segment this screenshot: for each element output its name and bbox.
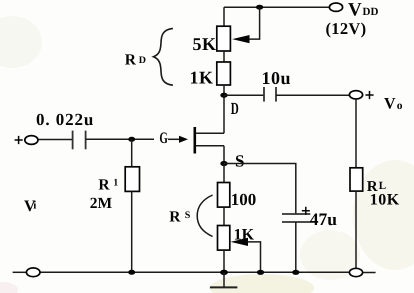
svg-text:R: R: [169, 208, 181, 225]
svg-text:o: o: [397, 100, 403, 112]
label RD: [125, 51, 146, 68]
label 5K: [193, 34, 217, 54]
potentiometer 1K (part of RS): [218, 226, 230, 251]
svg-text:R: R: [125, 51, 137, 68]
svg-text:1K: 1K: [190, 68, 214, 88]
label Vo: [384, 96, 403, 113]
node junction dot at R1 top: [128, 137, 135, 142]
terminal bottom-right: [349, 268, 362, 276]
svg-text:10K: 10K: [370, 192, 400, 209]
svg-text:R: R: [98, 176, 110, 193]
label 10u: [262, 68, 292, 88]
svg-text:1: 1: [113, 177, 118, 188]
terminal input Vi: [25, 136, 38, 145]
svg-text:5K: 5K: [193, 34, 217, 54]
node G label: [159, 130, 168, 147]
wire S down to 100: [223, 164, 225, 183]
wire 0.022u to gate: [86, 136, 188, 143]
potentiometer 5K (part of RD): [217, 26, 231, 51]
node junction dot R1 at rail: [128, 270, 135, 275]
wire junction down to R1: [131, 139, 133, 167]
label VDD: [348, 0, 378, 21]
svg-text:D: D: [139, 55, 146, 66]
terminal bottom-left: [26, 268, 40, 277]
minus stub bottom-right: [363, 272, 376, 274]
label RL: [367, 179, 386, 195]
resistor 100 (part of RS): [218, 183, 230, 208]
svg-text:D: D: [231, 99, 239, 118]
minus stub bottom-left: [13, 271, 27, 273]
node junction dot wiper at rail: [257, 270, 264, 275]
wire RL bottom to output ground terminal: [355, 191, 357, 268]
wire top rail from RD top to VDD terminal: [224, 6, 330, 8]
resistor 1K (part of RD): [217, 62, 231, 85]
svg-text:10u: 10u: [262, 68, 292, 88]
wire S to 47u branch: [224, 164, 296, 214]
wire between 5K and 1K: [223, 51, 225, 62]
node D dot: [220, 93, 227, 98]
plus mark at Vo: [366, 91, 374, 99]
wire 1K pot bottom to rail: [223, 250, 225, 272]
label RS: [169, 208, 191, 225]
wire wiper of 1K pot: [231, 238, 261, 272]
label 47u: [310, 209, 338, 229]
label 1K of RS: [234, 226, 255, 243]
svg-text:0. 022u: 0. 022u: [36, 110, 94, 129]
svg-text:L: L: [379, 180, 386, 192]
svg-text:S: S: [185, 210, 191, 221]
label S: [235, 152, 245, 171]
svg-text:V: V: [384, 96, 396, 113]
node S dot: [220, 161, 227, 166]
wire 100 to 1K pot: [223, 207, 225, 225]
plus mark at 47u: [302, 207, 310, 215]
capacitor 10u: [264, 87, 276, 102]
ground: [210, 272, 238, 287]
capacitor 0.022u: [73, 131, 86, 150]
svg-text:V: V: [348, 0, 362, 21]
terminal Vo: [349, 91, 362, 99]
label 1K: [190, 68, 214, 88]
wire R1 bottom to ground rail: [131, 191, 133, 272]
label R1: [98, 176, 118, 193]
svg-text:100: 100: [231, 190, 256, 209]
wire 47u bottom to rail: [295, 222, 297, 272]
wire 10u to Vo terminal: [276, 94, 349, 96]
wire vertical into 5K top: [223, 7, 225, 26]
label 10K: [370, 192, 400, 209]
resistor R1: [125, 167, 139, 192]
transistor JFET: [195, 127, 224, 164]
svg-text:47u: 47u: [310, 209, 338, 229]
svg-text:G: G: [159, 130, 168, 147]
capacitor 47u: [282, 214, 310, 222]
label D: [231, 99, 239, 118]
resistor RL: [350, 168, 363, 191]
svg-text:(12V): (12V): [326, 19, 367, 38]
brace arc for RS: [197, 195, 212, 237]
plus mark at input: [15, 136, 23, 144]
label Vi: [24, 198, 36, 215]
node junction dot top rail: [256, 5, 263, 10]
brace for RD: [154, 28, 173, 85]
label 2M: [90, 195, 113, 212]
wire 1K bottom through node D down to JFET drain lead: [223, 85, 225, 133]
wire bottom ground rail: [40, 271, 349, 273]
label 0.022u: [36, 110, 94, 129]
wire node D to 10u capacitor: [224, 94, 264, 96]
wire wiper of 5K pot: [232, 7, 259, 43]
svg-text:DD: DD: [363, 6, 379, 18]
svg-text:S: S: [235, 152, 245, 171]
wire input to 0.022u: [38, 139, 73, 141]
node junction dot 47u at rail: [292, 270, 299, 275]
svg-text:2M: 2M: [90, 195, 113, 212]
wire Vo down to RL: [355, 99, 357, 168]
svg-text:i: i: [33, 199, 36, 211]
terminal VDD: [329, 3, 342, 11]
label (12V): [326, 19, 367, 38]
label 100: [231, 190, 256, 209]
node junction dot RS at rail: [220, 270, 228, 275]
